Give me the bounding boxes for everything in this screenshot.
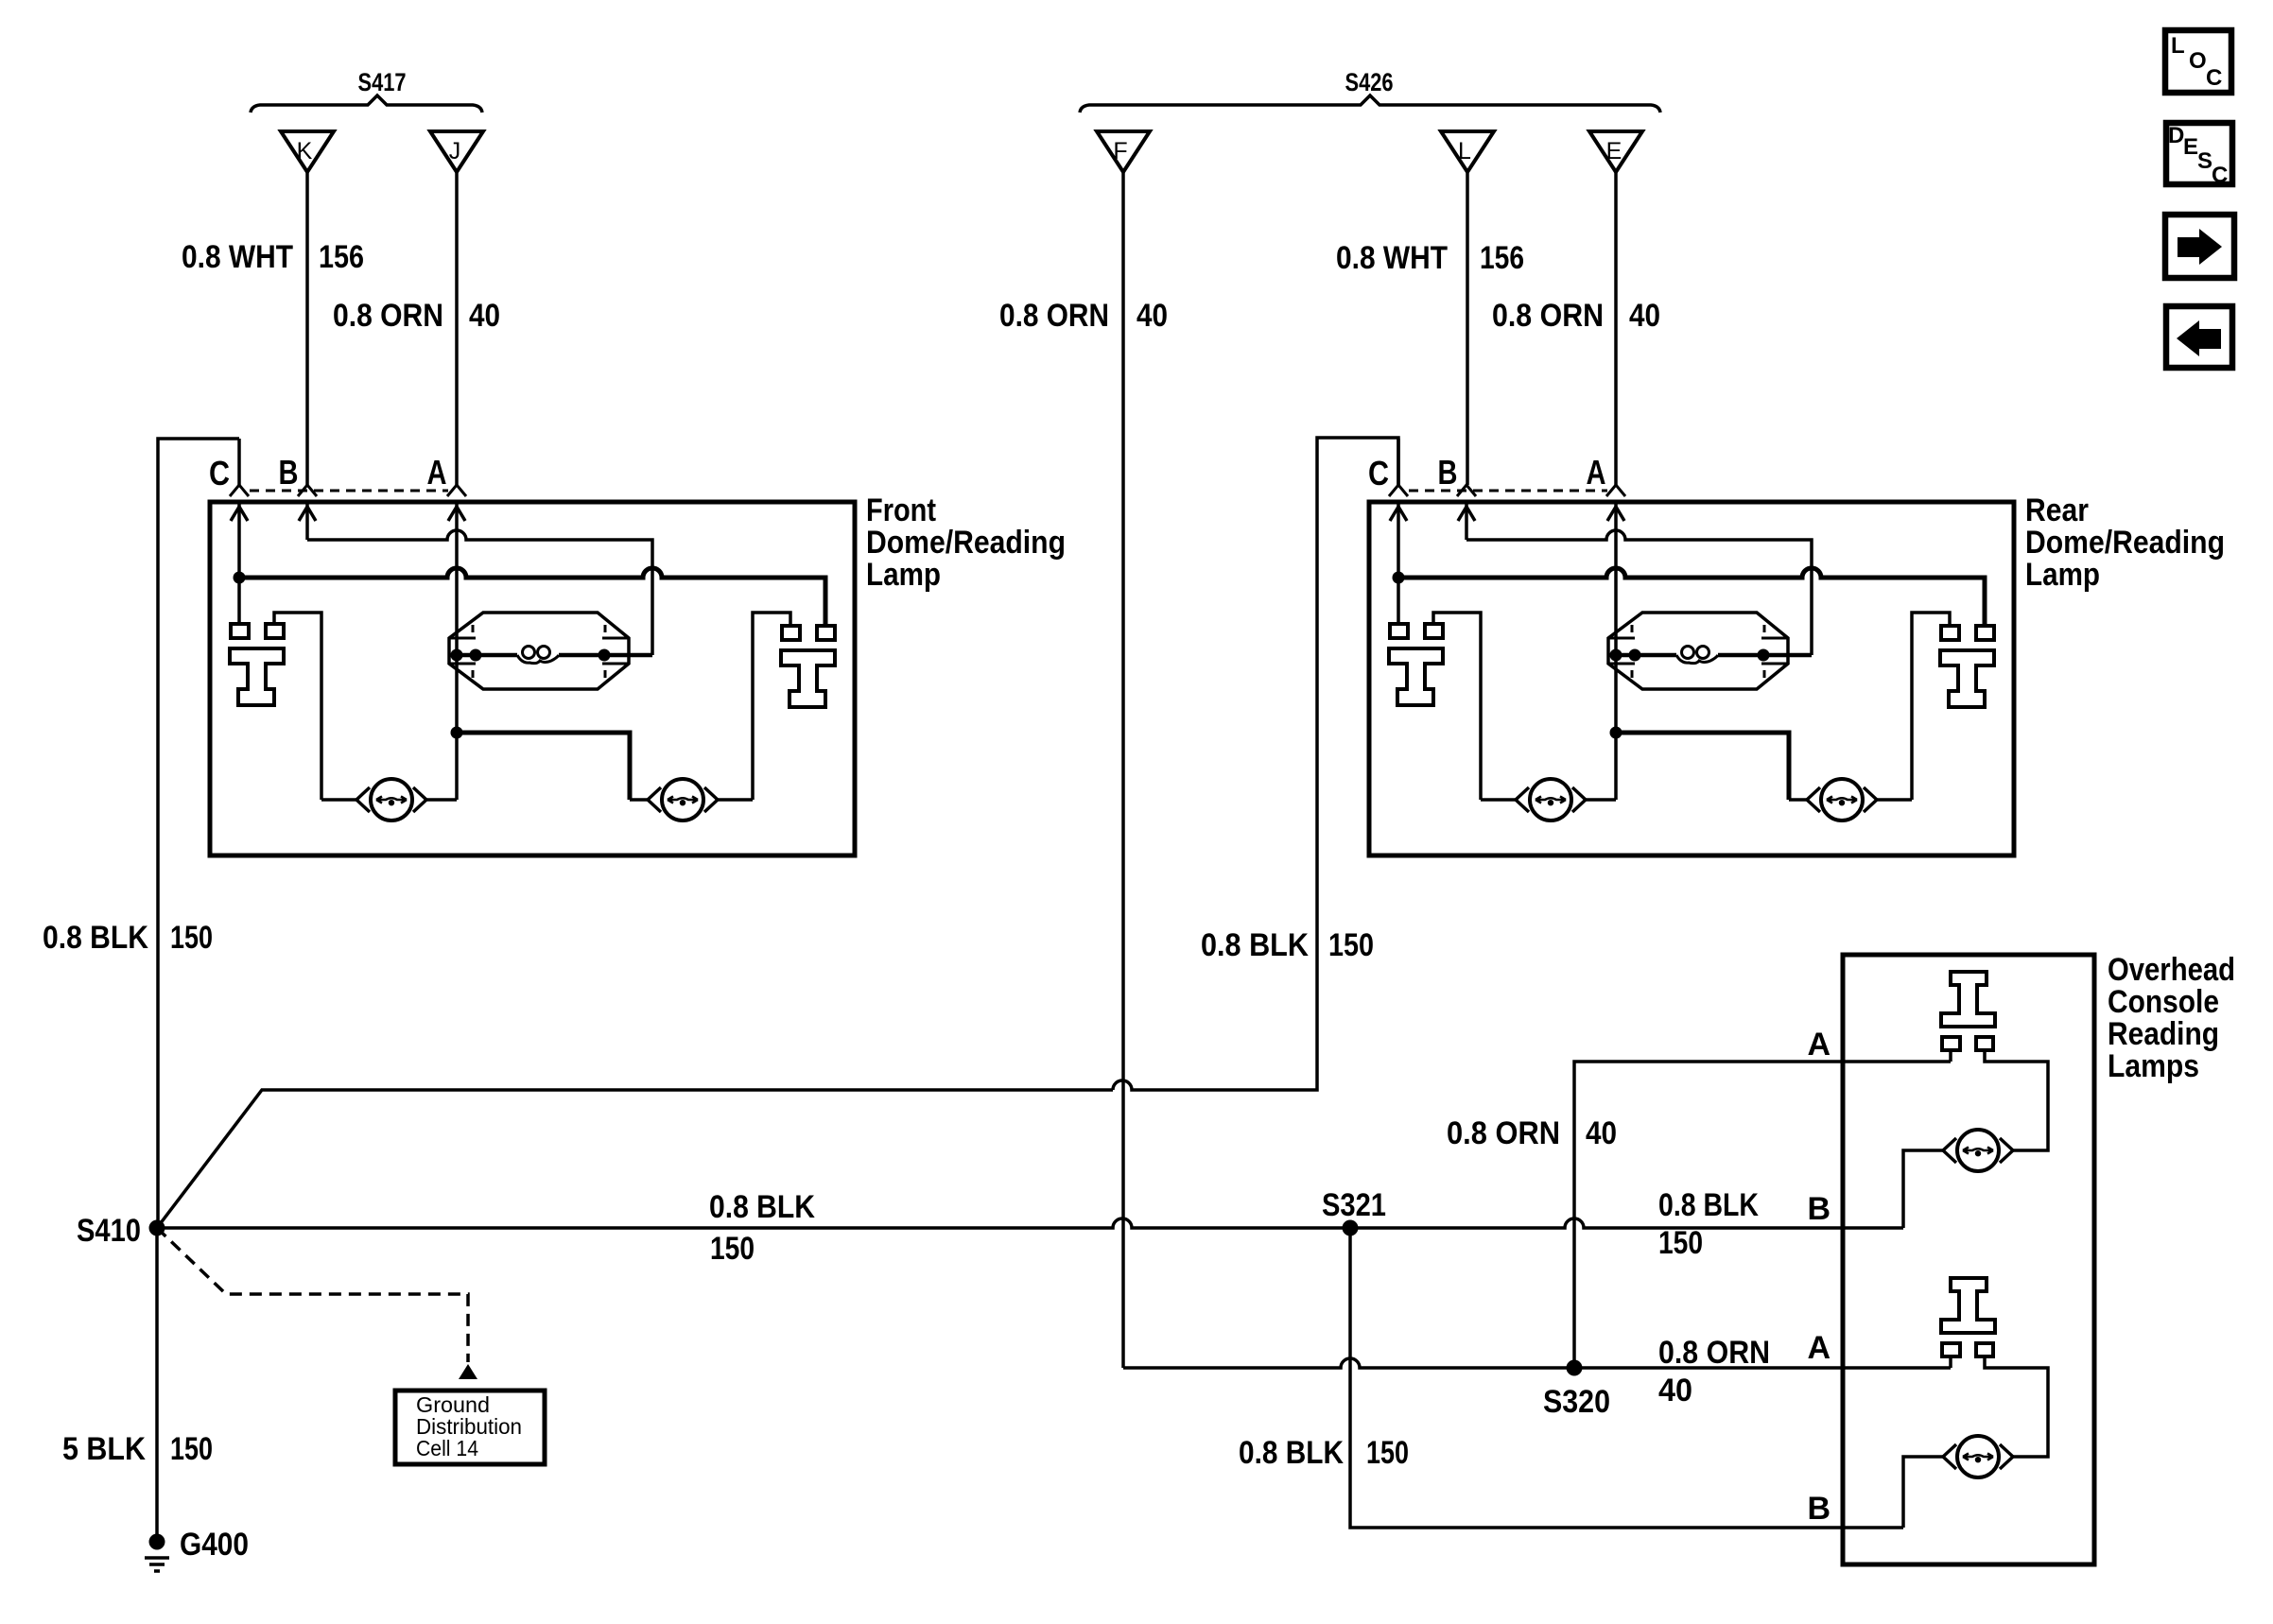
svg-text:Console: Console xyxy=(2108,984,2219,1020)
svg-text:Lamp: Lamp xyxy=(866,557,941,593)
svg-text:C: C xyxy=(2206,65,2222,91)
svg-text:Front: Front xyxy=(866,492,936,528)
svg-text:E: E xyxy=(1606,138,1622,164)
svg-text:A: A xyxy=(1807,1330,1831,1366)
svg-text:150: 150 xyxy=(170,1431,213,1467)
svg-text:K: K xyxy=(297,138,313,164)
svg-text:0.8 BLK: 0.8 BLK xyxy=(1239,1435,1344,1471)
svg-text:40: 40 xyxy=(1629,298,1660,334)
svg-text:156: 156 xyxy=(1480,240,1524,276)
svg-text:150: 150 xyxy=(170,920,213,956)
svg-text:J: J xyxy=(449,138,461,164)
svg-text:150: 150 xyxy=(710,1231,755,1267)
svg-text:E: E xyxy=(2183,134,2198,160)
svg-text:F: F xyxy=(1113,138,1127,164)
svg-text:0.8 ORN: 0.8 ORN xyxy=(1658,1335,1770,1371)
svg-text:G400: G400 xyxy=(180,1527,249,1563)
svg-text:Rear: Rear xyxy=(2025,492,2089,528)
svg-text:40: 40 xyxy=(1658,1373,1692,1408)
svg-text:0.8 WHT: 0.8 WHT xyxy=(1336,240,1448,276)
svg-text:5 BLK: 5 BLK xyxy=(62,1431,146,1467)
svg-text:Lamp: Lamp xyxy=(2025,557,2100,593)
svg-text:150: 150 xyxy=(1366,1435,1409,1471)
svg-text:0.8 BLK: 0.8 BLK xyxy=(43,920,148,956)
svg-text:C: C xyxy=(2212,163,2228,188)
svg-text:S: S xyxy=(2197,148,2212,174)
svg-text:Lamps: Lamps xyxy=(2108,1048,2199,1084)
svg-text:0.8 BLK: 0.8 BLK xyxy=(1658,1187,1759,1223)
svg-text:156: 156 xyxy=(319,239,364,275)
svg-text:0.8 WHT: 0.8 WHT xyxy=(182,239,293,275)
svg-text:S426: S426 xyxy=(1345,68,1394,96)
svg-text:O: O xyxy=(2189,48,2207,74)
svg-text:40: 40 xyxy=(1136,298,1168,334)
svg-text:150: 150 xyxy=(1328,927,1374,963)
svg-text:0.8 BLK: 0.8 BLK xyxy=(1201,927,1309,963)
svg-text:B: B xyxy=(1807,1491,1831,1527)
svg-text:0.8 ORN: 0.8 ORN xyxy=(1492,298,1604,334)
svg-text:0.8 ORN: 0.8 ORN xyxy=(1447,1115,1560,1151)
svg-text:L: L xyxy=(2171,33,2185,59)
svg-text:Dome/Reading: Dome/Reading xyxy=(866,525,1066,561)
svg-text:0.8 BLK: 0.8 BLK xyxy=(709,1189,815,1225)
svg-text:B: B xyxy=(1807,1191,1831,1227)
svg-text:0.8 ORN: 0.8 ORN xyxy=(333,298,443,334)
svg-text:Overhead: Overhead xyxy=(2108,952,2235,988)
svg-text:40: 40 xyxy=(1586,1115,1617,1151)
svg-text:Dome/Reading: Dome/Reading xyxy=(2025,525,2225,561)
svg-text:S410: S410 xyxy=(77,1213,141,1249)
svg-text:Reading: Reading xyxy=(2108,1016,2219,1052)
svg-text:S417: S417 xyxy=(358,68,407,96)
svg-text:0.8 ORN: 0.8 ORN xyxy=(999,298,1109,334)
svg-text:S321: S321 xyxy=(1322,1187,1386,1223)
svg-text:L: L xyxy=(1458,138,1471,164)
svg-text:Cell 14: Cell 14 xyxy=(416,1436,478,1460)
svg-text:A: A xyxy=(1807,1027,1831,1063)
svg-text:150: 150 xyxy=(1658,1225,1703,1261)
svg-text:40: 40 xyxy=(469,298,500,334)
svg-text:D: D xyxy=(2168,123,2184,148)
svg-text:S320: S320 xyxy=(1543,1384,1610,1420)
